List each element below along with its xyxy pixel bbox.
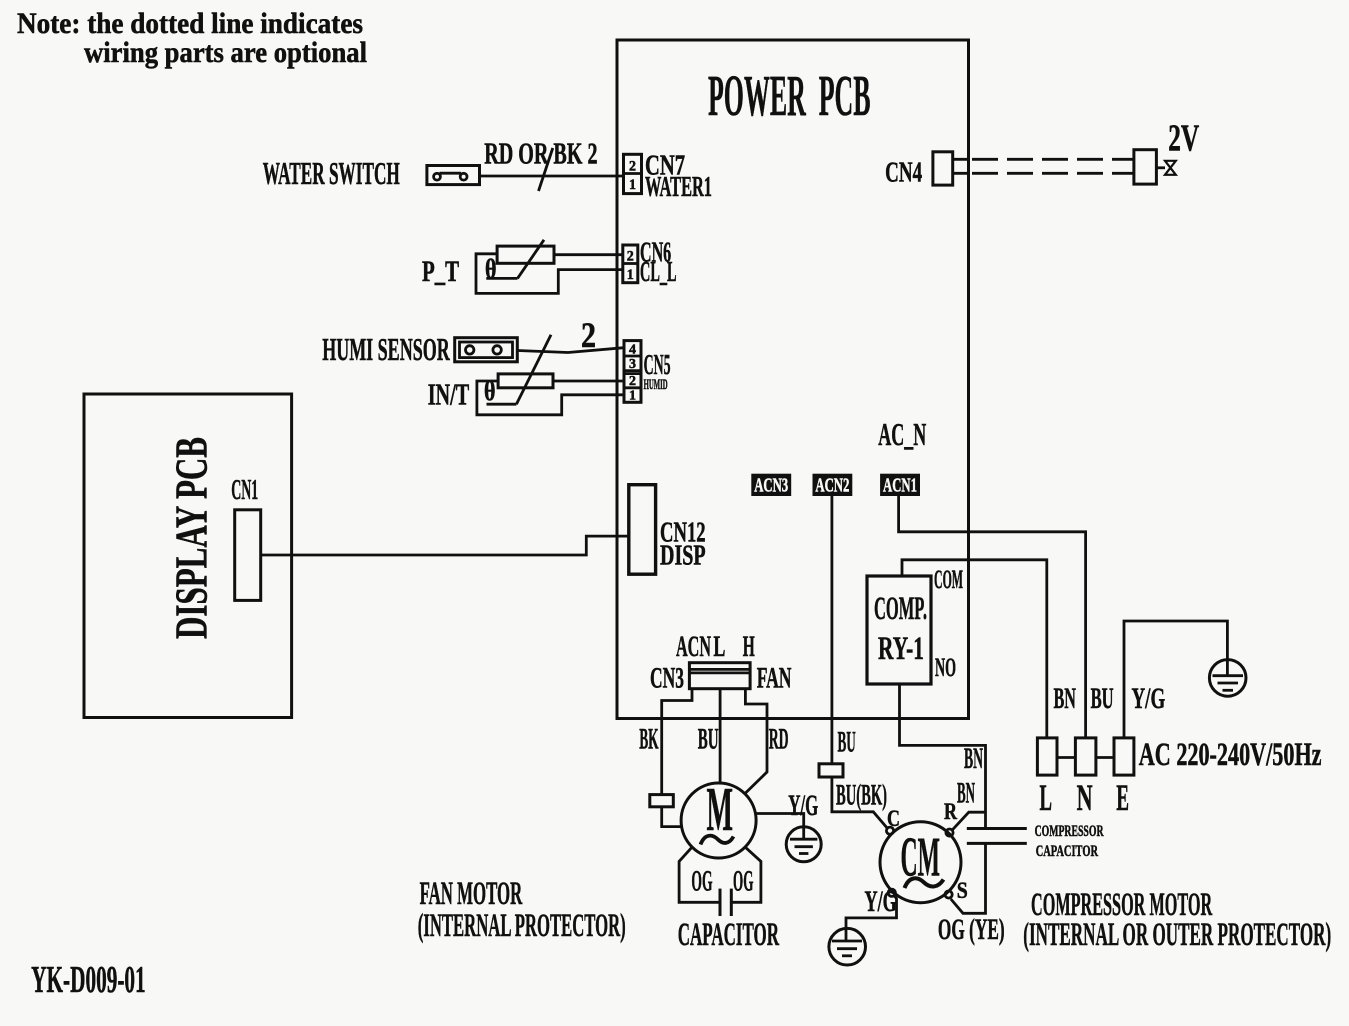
svg-text:AC_N: AC_N <box>878 416 926 452</box>
thermistor P_T <box>485 240 554 284</box>
connector CN5 <box>624 341 641 404</box>
connector CN12 <box>629 485 656 575</box>
svg-text:ACN3: ACN3 <box>754 475 788 497</box>
connector CN3 (fan) <box>689 663 750 689</box>
wire capacitor to compressor S <box>951 843 986 913</box>
svg-text:RD: RD <box>769 723 789 756</box>
earth ground (mains) <box>1209 660 1246 697</box>
svg-text:2: 2 <box>627 249 634 265</box>
svg-text:ACN2: ACN2 <box>815 475 849 497</box>
internal protector (fan) <box>650 795 674 807</box>
connector CN1 <box>235 510 261 601</box>
svg-text:RD OR BK 2: RD OR BK 2 <box>484 136 597 171</box>
pin labels ACN L H <box>676 630 755 663</box>
CN4 pin stubs <box>953 159 969 173</box>
svg-text:BN: BN <box>1054 682 1077 715</box>
capacitor (fan) <box>720 889 731 916</box>
wire RY-1 COM to L terminal <box>902 560 1047 738</box>
svg-text:BN: BN <box>964 742 983 775</box>
svg-text:BU: BU <box>838 726 856 759</box>
svg-text:NO: NO <box>935 653 956 682</box>
node ACN1 <box>880 474 920 497</box>
wire compressor Y/G to earth <box>846 896 897 929</box>
terminal block links <box>1057 756 1114 759</box>
svg-text:2V: 2V <box>1168 118 1199 160</box>
svg-text:P_T: P_T <box>422 255 459 288</box>
svg-text:wiring parts are optional: wiring parts are optional <box>84 36 367 69</box>
svg-text:HUMID: HUMID <box>644 377 668 393</box>
note text <box>17 7 367 69</box>
svg-text:COMP.: COMP. <box>874 591 927 627</box>
svg-text:3: 3 <box>629 357 636 372</box>
wire fan motor Y/G to earth <box>756 814 804 828</box>
wire RD fan <box>745 689 767 793</box>
wire-count slash on water switch wire <box>539 148 553 191</box>
svg-text:CN1: CN1 <box>231 474 258 506</box>
CN5 HUMID label <box>644 349 671 393</box>
terminal Y/G (compressor) <box>888 889 895 896</box>
svg-text:RY-1: RY-1 <box>878 631 924 667</box>
wire BU fan <box>719 689 722 783</box>
svg-text:1: 1 <box>627 267 634 283</box>
wire BK fan <box>662 689 692 795</box>
svg-text:FAN: FAN <box>757 662 792 695</box>
wire water switch to CN7 <box>480 175 624 178</box>
svg-text:2: 2 <box>629 159 636 175</box>
svg-text:OG: OG <box>691 865 712 898</box>
svg-text:POWER PCB: POWER PCB <box>708 63 871 128</box>
compressor capacitor <box>967 829 1027 844</box>
CN6 CL_L label <box>640 237 677 289</box>
svg-text:BU: BU <box>698 723 719 756</box>
svg-text:CN4: CN4 <box>885 157 922 189</box>
earth ground (fan motor) <box>786 827 821 862</box>
valve symbol <box>1156 161 1175 175</box>
compressor motor CM <box>880 822 961 903</box>
wire IN/T leads loop <box>477 381 624 415</box>
FAN MOTOR caption <box>418 876 626 944</box>
svg-text:ACN: ACN <box>676 630 711 663</box>
svg-text:2: 2 <box>581 315 596 355</box>
svg-text:2: 2 <box>629 374 636 389</box>
wire RY-1 NO to compressor capacitor <box>900 684 986 828</box>
earth ground (compressor) <box>829 928 866 965</box>
fan motor M <box>681 776 756 858</box>
CN12 DISP label <box>660 517 706 572</box>
svg-text:N: N <box>1077 778 1093 819</box>
terminal N <box>1075 738 1096 775</box>
svg-text:1: 1 <box>629 177 636 193</box>
svg-text:BK: BK <box>639 723 659 756</box>
svg-text:COM: COM <box>934 565 963 594</box>
terminal L <box>1037 738 1057 775</box>
svg-text:Y/G: Y/G <box>1132 682 1166 715</box>
valve coil box 2V <box>1134 150 1157 184</box>
svg-text:Y/G: Y/G <box>865 885 897 918</box>
svg-text:4: 4 <box>629 343 636 358</box>
svg-text:θ: θ <box>485 254 497 284</box>
connector CN7 <box>624 154 642 193</box>
svg-text:COMPRESSOR: COMPRESSOR <box>1035 823 1104 840</box>
svg-text:DISP: DISP <box>660 540 706 572</box>
svg-text:HUMI SENSOR: HUMI SENSOR <box>322 331 450 367</box>
svg-text:BN: BN <box>957 777 975 810</box>
splice terminal on BU wire <box>819 764 843 777</box>
COMPRESSOR MOTOR caption <box>1023 887 1331 953</box>
wire humi sensor to CN5 pin4 <box>517 348 624 353</box>
svg-text:OG: OG <box>733 865 753 898</box>
wire fan motor to capacitor left <box>679 847 720 902</box>
terminal C <box>886 827 893 834</box>
relay COMP. RY-1 <box>867 576 931 684</box>
svg-text:Y/G: Y/G <box>788 789 818 822</box>
terminal R <box>946 829 953 836</box>
wire ACN2 to compressor splice <box>831 496 834 764</box>
svg-text:IN/T: IN/T <box>428 377 470 412</box>
svg-text:ACN1: ACN1 <box>883 475 917 497</box>
svg-text:AC 220-240V/50Hz: AC 220-240V/50Hz <box>1139 737 1322 773</box>
svg-text:L: L <box>1040 778 1053 819</box>
wire CN1 to CN12 <box>261 536 629 555</box>
wire splice to compressor C <box>832 777 888 829</box>
svg-text:S: S <box>957 878 968 903</box>
svg-text:H: H <box>743 630 755 663</box>
DISPLAY PCB board outline <box>84 394 292 718</box>
terminal E <box>1114 738 1134 775</box>
dashed optional wires CN4 to valve <box>972 159 1134 173</box>
svg-text:CAPACITOR: CAPACITOR <box>1036 843 1099 860</box>
svg-text:R: R <box>944 799 957 824</box>
svg-text:BU: BU <box>1091 682 1114 715</box>
svg-text:(INTERNAL OR OUTER PROTECTOR): (INTERNAL OR OUTER PROTECTOR) <box>1023 917 1331 953</box>
svg-text:1: 1 <box>629 389 636 404</box>
svg-text:DISPLAY PCB: DISPLAY PCB <box>166 437 217 639</box>
COMPRESSOR CAPACITOR caption <box>1035 823 1104 860</box>
svg-text:CN3: CN3 <box>650 662 684 695</box>
svg-text:L: L <box>713 630 725 663</box>
wire fan motor to capacitor right <box>731 847 761 902</box>
svg-text:CAPACITOR: CAPACITOR <box>678 917 780 953</box>
thermistor IN/T <box>484 335 553 406</box>
connector CN4 <box>933 152 953 185</box>
svg-text:WATER1: WATER1 <box>645 171 712 203</box>
water switch S1 <box>427 166 480 185</box>
svg-text:WATER SWITCH: WATER SWITCH <box>263 155 400 191</box>
svg-text:(INTERNAL PROTECTOR): (INTERNAL PROTECTOR) <box>418 908 626 944</box>
terminal S <box>945 891 952 898</box>
svg-text:C: C <box>887 806 900 831</box>
svg-text:FAN MOTOR: FAN MOTOR <box>420 876 523 912</box>
node ACN2 <box>813 474 853 497</box>
POWER PCB board outline <box>617 40 969 719</box>
connector CN6 <box>623 245 638 283</box>
wire protector to fan motor <box>662 807 683 827</box>
CN7 WATER1 label <box>645 150 712 204</box>
wire E to earth <box>1124 621 1227 738</box>
svg-text:OG (YE): OG (YE) <box>938 913 1005 946</box>
wire P_T leads loop <box>476 254 623 294</box>
svg-text:BU(BK): BU(BK) <box>836 779 887 812</box>
svg-text:YK-D009-01: YK-D009-01 <box>31 959 146 1001</box>
wire ACN1 to N terminal <box>899 496 1086 738</box>
node ACN3 <box>751 474 791 497</box>
svg-text:E: E <box>1116 778 1129 819</box>
wire compressor R to BN <box>952 812 985 830</box>
humidity sensor <box>455 338 518 362</box>
svg-text:CL_L: CL_L <box>640 256 677 288</box>
